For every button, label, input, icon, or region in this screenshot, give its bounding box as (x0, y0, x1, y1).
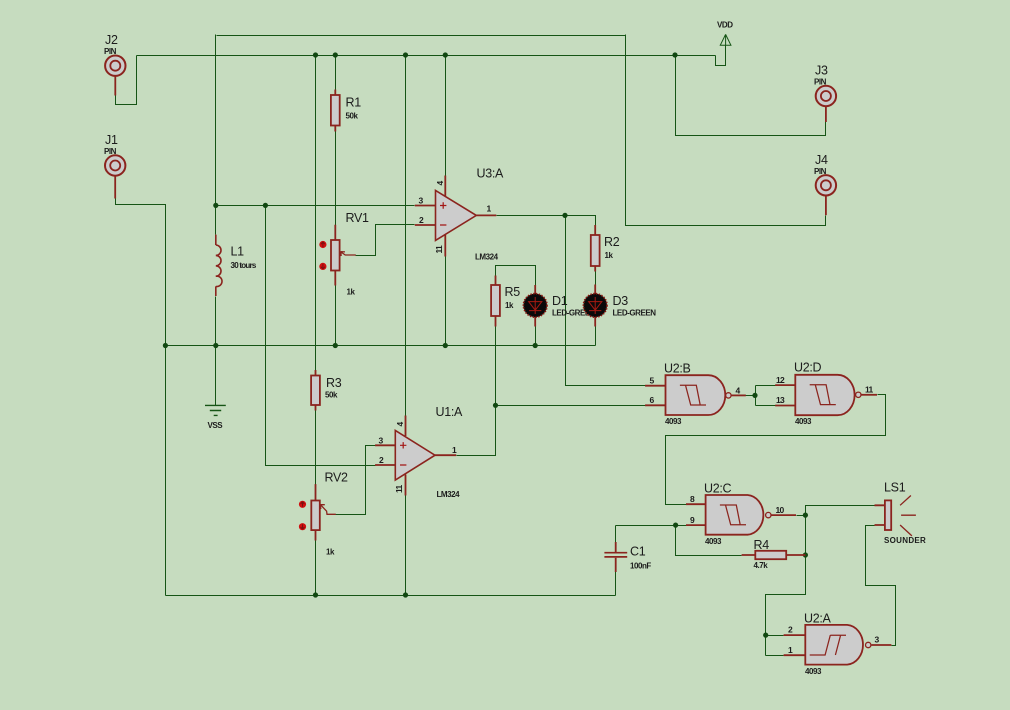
svg-text:PIN: PIN (104, 147, 117, 156)
svg-text:U2:D: U2:D (794, 361, 822, 375)
resistor R3 (311, 370, 320, 411)
node dot gndbus/VSS (213, 343, 218, 348)
svg-text:J1: J1 (105, 133, 118, 147)
wire R5.5 bottom to U1.5 out node (495, 327, 497, 406)
LED D3 (583, 285, 607, 327)
wire C1.5 top to U2.5:C pin9.5 (616, 526, 687, 544)
svg-text:12: 12 (776, 375, 785, 385)
wire bus205.5 to U1.5 pin2.5 (266, 206, 376, 466)
wire R1.5/RV1.5 rail x=335.5 (335, 56, 337, 91)
connector J1 (105, 155, 125, 198)
wire U3.5 pin11.5 to gnd bus (445, 257, 447, 346)
node dot gndbus/D1 (533, 343, 538, 348)
wire supply bus y=55.5 (137, 55, 716, 57)
wire VSS drop (215, 346, 217, 406)
wire U2.5:A out up to LS1.5 bottom (866, 526, 896, 646)
node dot pin9/C1 (673, 523, 678, 528)
svg-text:R2: R2 (604, 235, 620, 249)
op-amp U1:A (375, 416, 456, 496)
node dot gndbus/RV1 (333, 343, 338, 348)
svg-text:50k: 50k (325, 391, 338, 400)
node dot gndbus/J1 rail (163, 343, 168, 348)
pot RV1 (319, 225, 356, 286)
svg-text:50k: 50k (346, 112, 359, 121)
svg-text:11: 11 (394, 484, 404, 493)
wire R2.5 to D3.5 (595, 271, 597, 286)
node dot U1out/pin6 (493, 403, 498, 408)
svg-text:J4: J4 (815, 153, 828, 167)
wire U2.5:B out to U2.5:D inputs (746, 386, 776, 406)
op-amp U3:A (415, 176, 497, 257)
node dot R4 right (803, 552, 808, 557)
svg-text:R5: R5 (505, 285, 521, 299)
node dot bus55/U1pin4 (403, 52, 408, 57)
svg-text:LM324: LM324 (475, 253, 499, 262)
wire bottom bus y=594.5 (166, 595, 616, 597)
svg-text:SOUNDER: SOUNDER (884, 536, 926, 545)
wire R5.5 top bridge to D1.5 (496, 266, 536, 286)
svg-text:RV2: RV2 (325, 471, 349, 485)
node dot U2:B out (752, 393, 757, 398)
ground VSS (205, 405, 226, 415)
svg-text:L1: L1 (231, 245, 245, 259)
svg-text:11: 11 (865, 385, 874, 395)
connector J4 (816, 175, 836, 215)
svg-text:PIN: PIN (104, 47, 117, 56)
connector J2 (105, 55, 125, 95)
resistor R2 (591, 225, 600, 272)
svg-text:4093: 4093 (805, 667, 822, 676)
node dot gndbus/U3pin11 (443, 343, 448, 348)
node dot U2:C out (803, 513, 808, 518)
svg-text:U3:A: U3:A (477, 167, 505, 181)
svg-text:J3: J3 (815, 64, 828, 78)
VDD power symbol (720, 34, 732, 45)
node dot U2:A inputs (763, 633, 768, 638)
svg-text:4093: 4093 (795, 417, 812, 426)
node dot bus205/L1 (213, 203, 218, 208)
svg-text:LED-GREEN: LED-GREEN (613, 309, 657, 318)
svg-text:PIN: PIN (814, 78, 827, 87)
svg-text:J2: J2 (105, 33, 118, 47)
node dot bottombus/U1pin11 (403, 592, 408, 597)
svg-text:11: 11 (434, 245, 444, 254)
wire U2.5:C out to LS1.5 top (797, 506, 875, 516)
wire U3.5 output to R2.5 (497, 216, 596, 226)
svg-text:C1: C1 (630, 545, 646, 559)
svg-text:U1:A: U1:A (436, 405, 464, 419)
wire U3.5 pin4.5 rail (445, 56, 447, 176)
svg-text:R1: R1 (346, 96, 362, 110)
node dot bus55/R3 (313, 52, 318, 57)
svg-text:R4: R4 (754, 538, 770, 552)
svg-text:D1: D1 (552, 294, 568, 308)
wire J4.5 to top bus (626, 35, 826, 226)
svg-text:1k: 1k (605, 251, 614, 260)
NAND gate U2:A (784, 625, 892, 665)
wire U1.5 pin11.5 to bottom bus (405, 496, 407, 596)
svg-text:4093: 4093 (665, 417, 682, 426)
svg-text:LS1: LS1 (884, 481, 906, 495)
wire gnd bus y=345.5 (166, 345, 596, 347)
svg-text:U2:A: U2:A (804, 612, 832, 626)
wire R3.5/RV2.5 rail x=315.5 (315, 56, 317, 372)
node dot bus55/J3 (672, 52, 677, 57)
wire top bus y=35.5 (217, 35, 626, 37)
svg-text:1k: 1k (326, 548, 335, 557)
LED D1 (523, 285, 547, 327)
svg-text:1k: 1k (505, 301, 514, 310)
wire node bus y=205.5 (216, 205, 415, 207)
wire C1.5 bottom to bottom bus (615, 572, 617, 596)
svg-text:U2:B: U2:B (664, 362, 691, 376)
svg-text:13: 13 (776, 395, 785, 405)
sounder LS1 (875, 496, 916, 536)
wire J3.5 to bus55.5 (676, 56, 826, 136)
wire D1.5 to gnd bus (535, 327, 537, 346)
node dot bottombus/RV2 (313, 592, 318, 597)
wire RV2.5 wiper to U1.5 pin3.5 (336, 446, 376, 515)
svg-text:1k: 1k (347, 288, 356, 297)
svg-text:LM324: LM324 (437, 490, 461, 499)
pot RV2 (299, 484, 336, 540)
wire U2.5:D out loop to U2.5:C pin8.5 (666, 395, 886, 505)
node dot bus205/U1pin2 branch (263, 203, 268, 208)
svg-text:30 tours: 30 tours (231, 261, 257, 270)
svg-text:D3: D3 (613, 294, 629, 308)
svg-text:4093: 4093 (705, 537, 722, 546)
wire D3.5 to gnd bus (595, 327, 597, 346)
wire J2.5 to bus55.5 (116, 56, 137, 105)
wire J1.5 down left rail (116, 199, 166, 596)
svg-text:PIN: PIN (814, 167, 827, 176)
svg-text:4.7k: 4.7k (754, 561, 769, 570)
wire pin9.5 node down to R4.5 (676, 526, 742, 556)
wire VDD jog (716, 46, 726, 66)
wire U1.5 output up to pin6.5 node (457, 406, 496, 456)
NAND gate U2:D (775, 375, 877, 415)
node dot bus55/R1 (333, 52, 338, 57)
svg-text:R3: R3 (326, 376, 342, 390)
NAND gate U2:B (645, 375, 746, 415)
wire L1.5 bottom to gnd bus (215, 297, 217, 346)
wire U3.5 out down to U2.5:B pin5.5 (566, 216, 646, 386)
svg-text:RV1: RV1 (346, 211, 370, 225)
connector J3 (816, 86, 836, 122)
wire U1.5 pin4.5 rail (405, 56, 407, 416)
svg-text:U2:C: U2:C (704, 482, 732, 496)
inductor L1 (216, 235, 222, 296)
wire node to U2.5:B pin6.5 (496, 405, 646, 407)
svg-text:VSS: VSS (208, 421, 224, 430)
node dot U3 output (562, 213, 567, 218)
node dot bus55/U3pin4 (443, 52, 448, 57)
resistor R4 (horizontal) (742, 551, 806, 559)
wire R4.5 node down to U2.5:A inputs (766, 516, 806, 656)
wire RV1.5 wiper to U3.5 pin2.5 (356, 225, 415, 256)
NAND gate U2:C (686, 495, 796, 535)
capacitor C1 (604, 542, 627, 572)
resistor R5 (491, 276, 500, 327)
svg-text:100nF: 100nF (630, 562, 651, 571)
svg-text:10: 10 (776, 505, 785, 515)
resistor R1 (331, 90, 340, 132)
svg-text:VDD: VDD (717, 21, 733, 30)
wire vertical x=216.5 from top bus to L1.5 node (215, 35, 217, 235)
